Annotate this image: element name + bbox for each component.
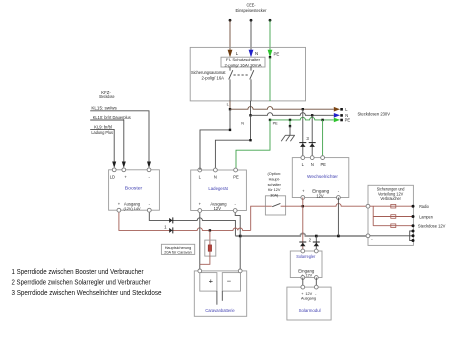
node CEE pin N	[250, 19, 253, 22]
node comb b	[412, 234, 415, 237]
svg-text:PE: PE	[345, 118, 351, 123]
wire plus distribution	[370, 206, 391, 226]
svg-text:Ausgang: Ausgang	[301, 297, 316, 301]
wire CEE L down	[229, 20, 231, 51]
diode D2a	[299, 242, 306, 246]
svg-text:30A): 30A)	[270, 193, 279, 197]
pin inverter N	[310, 156, 314, 160]
fuse F2	[391, 215, 413, 219]
pin charger plus out	[198, 209, 202, 213]
svg-text:CEE-: CEE-	[247, 3, 256, 8]
wire bus L 230V	[230, 107, 334, 110]
battery plate plus	[216, 291, 218, 305]
label Sicherungsautomat	[191, 70, 226, 80]
label box Hauptsicherung	[161, 244, 194, 254]
wire PE drop to inverter	[322, 120, 324, 158]
node N corner	[249, 139, 251, 141]
svg-text:Radio: Radio	[419, 204, 429, 209]
pin booster LD	[112, 168, 116, 172]
pin booster minus in	[147, 168, 151, 172]
svg-text:2 Sperrdiode zwischen Solarre: 2 Sperrdiode zwischen Solarregler und Ve…	[12, 279, 152, 286]
label option Hauptschalter	[268, 172, 282, 197]
svg-text:12V: 12V	[214, 206, 222, 211]
pin regler top minus	[314, 249, 318, 253]
wire regler to module plus	[302, 278, 304, 288]
battery plate minus	[221, 291, 223, 301]
diode D1b	[169, 227, 173, 233]
switch optional main switch	[265, 196, 285, 215]
pin charger PE	[234, 168, 238, 172]
pin inverter L	[301, 156, 305, 160]
svg-text:Ladegerät: Ladegerät	[208, 186, 228, 191]
svg-text:N: N	[241, 121, 244, 125]
wire inverter minus drop	[337, 198, 339, 236]
svg-text:Verbraucher: Verbraucher	[380, 196, 401, 201]
wire L from box to bus	[229, 101, 231, 109]
wire charger L feed	[200, 109, 230, 170]
wire fuse drop	[209, 230, 211, 245]
svg-text:12V: 12V	[316, 193, 324, 198]
node L bus tap	[229, 108, 231, 110]
battery cell right	[222, 273, 240, 292]
arrow L Steckdosen	[334, 107, 340, 112]
pin regler top plus	[301, 249, 305, 253]
wire KL30 Dauerplus	[90, 120, 124, 162]
svg-text:FI- Schutzschalter: FI- Schutzschalter	[226, 58, 261, 62]
arrow N into box	[249, 50, 254, 58]
wire minus comb	[370, 231, 413, 241]
node Radio	[412, 205, 415, 208]
wire KL15	[90, 111, 149, 162]
fuse F3	[391, 224, 413, 228]
svg-text:12V: 12V	[305, 274, 312, 278]
svg-text:Solarmodul: Solarmodul	[299, 308, 321, 313]
wire CEE PE down	[269, 20, 271, 51]
svg-text:Ausgang: Ausgang	[124, 202, 141, 207]
svg-text:Lampen: Lampen	[419, 214, 433, 219]
node comb a	[412, 230, 415, 233]
node minus Solarregler	[315, 235, 318, 238]
svg-text:20A für Caravan: 20A für Caravan	[164, 250, 191, 254]
fuse Hauptsicherung	[205, 240, 216, 256]
pin inverter PE	[321, 156, 325, 160]
wire L drop to inverter	[302, 109, 304, 157]
wire Booster minus to bus	[149, 210, 235, 236]
wire inverter plus down to solar	[302, 206, 304, 251]
wire Ladegeraet minus drop	[235, 211, 240, 271]
battery Caravanbatterie box	[194, 271, 246, 316]
svg-text:Wechselrichter: Wechselrichter	[307, 174, 338, 179]
node ground stub	[289, 125, 291, 127]
node Steckdose 12V	[412, 224, 415, 227]
svg-text:Steckdosen 230V: Steckdosen 230V	[358, 111, 391, 116]
wire 12V plus riser	[251, 206, 266, 230]
wire PE down to Ladegeraet	[236, 120, 270, 170]
diode D3a	[299, 143, 306, 147]
wire N drop to inverter	[311, 115, 313, 157]
label CEE-Einspeisestecker	[236, 3, 267, 13]
svg-text:Einspeisestecker: Einspeisestecker	[236, 8, 267, 13]
node N bus tap	[249, 114, 251, 116]
svg-text:PE: PE	[320, 162, 326, 167]
wire regler to module minus	[315, 278, 317, 288]
pin regler in minus	[314, 276, 318, 280]
pin battery minus	[238, 269, 242, 273]
svg-text:3 Sperrdiode zwischen Wechsel: 3 Sperrdiode zwischen Wechselrichter und…	[12, 290, 162, 297]
arrow L into box	[228, 50, 233, 58]
svg-text:schalter: schalter	[268, 183, 282, 187]
svg-text:N: N	[311, 162, 314, 167]
svg-text:(Option:: (Option:	[268, 172, 282, 176]
pin booster minus out	[147, 208, 151, 212]
solar regulator Solarregler box	[290, 251, 322, 278]
pin booster plus in	[122, 168, 126, 172]
svg-text:(12V) 14V: (12V) 14V	[123, 207, 141, 211]
linkage dashed between poles	[234, 74, 249, 76]
svg-text:Steckdose: Steckdose	[99, 94, 115, 99]
node main fuse tap	[209, 229, 211, 231]
node CEE pin PE	[269, 19, 272, 22]
wire CEE N down	[250, 20, 252, 51]
node PE bus to inverter	[321, 119, 323, 121]
wire PE stub to chassis ground	[289, 120, 291, 126]
pin charger minus out	[233, 209, 237, 213]
svg-text:KL15: sw/ws: KL15: sw/ws	[91, 106, 116, 111]
pin battery plus	[198, 269, 202, 273]
node CEE pin L	[229, 19, 232, 22]
solar panel Solarmodul box	[287, 287, 331, 320]
svg-text:L: L	[227, 103, 229, 107]
svg-text:N: N	[255, 51, 258, 56]
diode D3b	[309, 143, 316, 147]
fuse panel Sicherungen box	[368, 185, 413, 245]
pin regler in plus	[301, 276, 305, 280]
wire 12V plus to fuse panel	[286, 204, 367, 207]
node minus inverter	[337, 235, 340, 238]
arrow PE Steckdosen	[334, 118, 340, 123]
node comb c	[412, 239, 415, 242]
svg-text:12V: 12V	[305, 292, 312, 296]
svg-text:Hauptsicherung: Hauptsicherung	[165, 246, 192, 250]
svg-text:2-polig/ 16A/ 30mA: 2-polig/ 16A/ 30mA	[225, 64, 263, 68]
svg-text:Booster: Booster	[125, 185, 143, 190]
node charger L corner	[229, 129, 231, 131]
node PE ground tap	[289, 119, 291, 121]
wire bus 12V minus	[235, 233, 366, 236]
svg-text:Sicherungsautomat: Sicherungsautomat	[191, 70, 226, 75]
booster box	[109, 170, 160, 211]
arrow into booster plus	[122, 162, 126, 169]
diode D2b	[313, 242, 320, 246]
wire N from box to bus	[250, 101, 252, 115]
node Lampen	[412, 215, 415, 218]
svg-text:Caravanbatterie: Caravanbatterie	[205, 308, 235, 313]
wire ground stub lower	[289, 126, 291, 135]
svg-text:PE: PE	[274, 52, 280, 57]
arrow into booster LD	[112, 162, 116, 169]
svg-text:Solarregler: Solarregler	[296, 254, 315, 259]
svg-text:N: N	[214, 175, 217, 180]
svg-text:Eingang: Eingang	[298, 268, 315, 273]
wire bus 12V plus red	[119, 210, 251, 230]
pin inverter minus	[337, 196, 341, 200]
svg-text:KL9: br/bl: KL9: br/bl	[94, 124, 112, 129]
diode D1a	[169, 217, 173, 223]
pin panel minus	[366, 234, 370, 238]
node L bus to inverter	[302, 108, 304, 110]
svg-text:PE: PE	[273, 122, 279, 126]
arrow PE into box	[268, 50, 273, 58]
wire N down to Ladegeraet	[215, 115, 250, 170]
label KFZ-Steckdose	[99, 90, 115, 99]
arrow into booster minus	[147, 162, 151, 169]
pin charger N	[214, 168, 218, 172]
pin inverter plus	[301, 196, 305, 200]
inverter Wechselrichter box	[292, 158, 349, 199]
wire bus N 230V	[251, 113, 334, 116]
svg-text:Steckdose 12V: Steckdose 12V	[418, 224, 446, 229]
svg-text:LD: LD	[110, 174, 115, 179]
battery cell left	[200, 273, 217, 292]
svg-text:2-polig/ 16A: 2-polig/ 16A	[202, 76, 225, 81]
charger Ladegeraet box	[191, 170, 247, 211]
node N bus to inverter	[311, 114, 313, 116]
node inverter plus junction	[302, 205, 304, 207]
breaker Sicherungsautomat pole N	[250, 67, 254, 101]
svg-text:KL10: br/rt Dauerplus: KL10: br/rt Dauerplus	[93, 115, 131, 120]
arrow N Steckdosen	[334, 113, 340, 118]
svg-text:für 12V: für 12V	[268, 188, 281, 192]
node PE bus tap	[269, 119, 271, 121]
svg-text:Haupt-: Haupt-	[269, 178, 281, 182]
wire KL9 Ladung	[90, 129, 114, 162]
svg-text:PE: PE	[233, 175, 239, 180]
fuse F1	[391, 204, 413, 208]
wire bus PE 230V	[270, 117, 334, 120]
wire fuse to battery plus	[200, 251, 210, 264]
node L arrow end	[340, 108, 343, 111]
enclosure box 230V distribution	[190, 47, 305, 101]
node minus Ladegeraet	[239, 235, 242, 238]
svg-text:−: −	[227, 276, 232, 285]
wire PE through box	[269, 57, 271, 101]
node N arrow end	[340, 114, 343, 117]
wire solar minus riser	[315, 236, 317, 251]
pin booster plus out	[117, 208, 121, 212]
breaker FI-Schutzschalter box	[221, 57, 265, 67]
pin module minus	[314, 285, 318, 289]
svg-text:Ladung Plus: Ladung Plus	[91, 130, 113, 135]
ground chassis symbol	[281, 135, 295, 141]
node PE on FI box	[269, 56, 271, 58]
pin panel plus	[366, 204, 370, 208]
wire inverter plus stub	[302, 198, 304, 207]
pin module plus	[301, 285, 305, 289]
pin charger L	[198, 168, 202, 172]
breaker Sicherungsautomat pole L	[229, 67, 233, 101]
svg-text:1 Sperrdiode zwischen Booster: 1 Sperrdiode zwischen Booster und Verbra…	[12, 269, 145, 276]
node PE arrow end	[340, 119, 343, 122]
svg-text:+: +	[209, 277, 214, 286]
wire Ladegeraet plus to battery	[199, 211, 201, 271]
